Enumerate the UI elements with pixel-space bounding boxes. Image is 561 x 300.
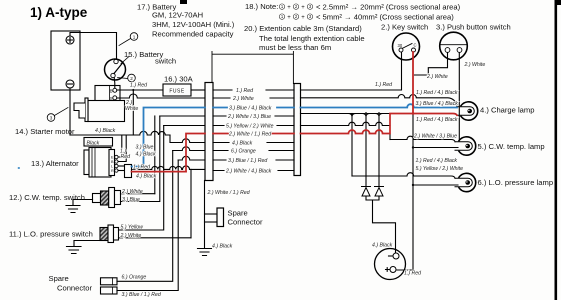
- node 1 leader: [119, 39, 131, 46]
- alternator terminal letters: [111, 156, 114, 174]
- svg-text:S: S: [110, 96, 113, 101]
- wire bus1 right to key switch: [301, 52, 402, 90]
- starter motor 14 body: [88, 101, 125, 122]
- node 3 circle: [47, 114, 55, 122]
- extension cable dimension line: [212, 52, 293, 84]
- alternator connector: [125, 165, 132, 178]
- push button terminal right: [457, 48, 462, 53]
- wire V4 black drop to CW lamp upper: [389, 134, 391, 140]
- ground CW temp switch: [66, 206, 80, 213]
- wire LO bottom 2.White: [119, 237, 192, 239]
- svg-text:C: C: [414, 43, 417, 48]
- key switch terminal AC: [412, 48, 416, 52]
- L.O. pressure switch ring: [108, 225, 114, 243]
- C.W. temp switch ring: [109, 188, 115, 208]
- svg-text:4.) Black: 4.) Black: [232, 140, 253, 146]
- svg-text:2.) White / 4.) Black: 2.) White / 4.) Black: [225, 168, 272, 174]
- plug minus pin: [393, 253, 399, 259]
- wire LO lamp lower from black vertical: [413, 184, 458, 186]
- wire bus w9 left stub bump over red: [178, 156, 205, 160]
- wire bus1 1.Red: [213, 89, 294, 91]
- cw temp lamp 5: [459, 137, 476, 155]
- plug minus sign: [389, 255, 393, 257]
- wire red bus6 right run with bumps and rise to lamp level: [301, 114, 458, 134]
- svg-text:1.) Red: 1.) Red: [133, 165, 151, 171]
- leader 15 battery switch: [121, 57, 129, 64]
- node 1 circle: [130, 33, 138, 41]
- svg-text:4.) Black: 4.) Black: [95, 128, 116, 134]
- ground middle 4.Black: [198, 249, 212, 256]
- svg-text:12.) C.W. temp. switch: 12.) C.W. temp. switch: [9, 193, 85, 202]
- diode D1: [362, 187, 371, 197]
- wire 1.Red starter B to fuse: [117, 89, 163, 91]
- wire battery+ to battery switch: [70, 33, 117, 60]
- scan speck: [18, 167, 20, 169]
- svg-text:GM, 12V-70AH: GM, 12V-70AH: [152, 11, 203, 20]
- svg-text:1.) Red / 4.) Black: 1.) Red / 4.) Black: [416, 90, 458, 96]
- wire alternator E up to ground run: [118, 135, 122, 157]
- charge lamp bulb: [457, 107, 474, 116]
- node 2 leader: [118, 78, 128, 79]
- wire diode common to plug: [373, 200, 396, 253]
- wire stub to mid spare connector pin1: [205, 213, 218, 215]
- svg-text:B: B: [110, 89, 113, 94]
- charge lamp 4: [461, 102, 478, 120]
- wire labels: [87, 62, 486, 298]
- starter motor solenoid divider: [109, 86, 111, 102]
- wire diodes join: [366, 196, 379, 200]
- svg-text:must be less than 6m: must be less than 6m: [259, 43, 331, 52]
- plug plus sign: [386, 268, 390, 272]
- svg-text:+: +: [287, 5, 291, 11]
- svg-text:Connector: Connector: [228, 218, 264, 227]
- wire CW lamp lower from black vertical: [413, 147, 458, 149]
- alternator terminal E: [115, 155, 118, 158]
- svg-text:1.) Red / 4.) Black: 1.) Red / 4.) Black: [416, 158, 458, 164]
- battery switch top terminal: [114, 59, 118, 63]
- wire diode feed V2: [365, 117, 367, 186]
- svg-text:3.) Blue / 4.) Black: 3.) Blue / 4.) Black: [416, 101, 459, 107]
- C.W. temp switch head: [115, 191, 121, 205]
- svg-text:4.) Black: 4.) Black: [136, 152, 157, 158]
- wire bus8 6.Orange: [213, 150, 294, 152]
- svg-text:4.) Charge lamp: 4.) Charge lamp: [480, 106, 534, 115]
- label box Black: [84, 138, 113, 147]
- L.O. pressure switch head: [114, 228, 119, 241]
- wire bus4 2.White 3.Blue: [213, 115, 294, 117]
- wire alternator R to connector: [118, 170, 124, 172]
- lo pressure lamp 6: [459, 173, 476, 191]
- alternator 13 left cap: [84, 150, 89, 175]
- svg-text:30: 30: [398, 43, 403, 48]
- svg-text:Spare: Spare: [228, 209, 248, 218]
- svg-text:L: L: [111, 165, 113, 169]
- wire CW lamp upper with bump over black vertical: [390, 136, 455, 142]
- svg-text:4.) Black: 4.) Black: [136, 174, 157, 180]
- wire LO to ground: [74, 241, 100, 247]
- svg-text:2.) White: 2.) White: [120, 233, 142, 239]
- node T junction V1: [349, 114, 356, 118]
- battery switch 15: [105, 59, 126, 80]
- svg-text:5.) Yellow / 2.) White: 5.) Yellow / 2.) White: [226, 123, 274, 129]
- wire 6.Orange spare to bus w8: [117, 151, 173, 282]
- svg-text:Recommended capacity: Recommended capacity: [152, 30, 234, 39]
- wire 3.Blue bus3 between bars: [213, 107, 294, 109]
- node 3 leader: [55, 108, 69, 116]
- svg-text:3HM, 12V-100AH (Mini.): 3HM, 12V-100AH (Mini.): [152, 20, 235, 29]
- wire black vertical key red continuation to plug: [397, 114, 413, 271]
- svg-text:1.) Red: 1.) Red: [236, 88, 254, 94]
- battery switch bottom terminal: [111, 73, 115, 77]
- node T junction V3: [376, 114, 383, 118]
- lo pressure lamp bulb: [455, 178, 472, 187]
- svg-text:16.) 30A: 16.) 30A: [164, 75, 194, 84]
- svg-text:14.) Starter motor: 14.) Starter motor: [15, 127, 75, 136]
- svg-text:2: 2: [130, 76, 133, 81]
- wire left bus bottom drop: [204, 181, 206, 249]
- wire 1.Red pair from alternator connector: [132, 171, 187, 173]
- svg-text:5.) Yellow / 2.) White: 5.) Yellow / 2.) White: [416, 166, 464, 172]
- wire push button right 2.White down to CW lamp: [458, 53, 460, 140]
- wire bus2 2.White: [213, 97, 294, 99]
- wire 3.Blue bus3 right run to charge lamp with bump over red: [301, 104, 458, 107]
- svg-text:3.) Blue: 3.) Blue: [122, 197, 140, 203]
- wire red key switch AC drop: [412, 52, 414, 114]
- svg-text:1.) Red: 1.) Red: [404, 270, 422, 276]
- alternator terminal B: [115, 160, 118, 163]
- svg-text:1.) Red: 1.) Red: [130, 82, 148, 88]
- svg-text:13.) Alternator: 13.) Alternator: [31, 159, 79, 168]
- svg-text:18.) Note:: 18.) Note:: [245, 2, 278, 11]
- L.O. pressure switch 11 body hatched: [100, 228, 108, 241]
- node 2 circle: [128, 74, 136, 82]
- wire bus5 5.Yellow 2.White: [213, 125, 294, 127]
- page mark top dash: [180, 0, 187, 4]
- battery 17: [51, 31, 80, 90]
- svg-text:3: 3: [50, 115, 53, 120]
- battery + terminal: [66, 36, 74, 44]
- alternator body ribs: [92, 148, 95, 178]
- plug battery connector: [375, 249, 406, 280]
- key switch 2: [393, 33, 420, 60]
- svg-text:1) A-type: 1) A-type: [30, 5, 88, 20]
- connector bus bar left: [205, 83, 213, 181]
- wire starter S to bus w2 with bump: [117, 94, 205, 98]
- fuse 16 30A box: [163, 84, 191, 96]
- wire LO lamp upper with bump: [352, 173, 455, 179]
- C.W. temp switch 12 stub: [93, 194, 101, 203]
- svg-text:2.) White: 2.) White: [232, 96, 254, 102]
- note formula line 1: [279, 4, 312, 19]
- svg-text:6.) Orange: 6.) Orange: [122, 275, 147, 281]
- svg-text:2.) White: 2.) White: [121, 189, 143, 195]
- starter motor S terminal: [113, 96, 117, 100]
- svg-text:Connector: Connector: [57, 284, 93, 293]
- wire battery- cable down: [69, 88, 71, 135]
- node junction CW lower: [412, 146, 414, 148]
- wire 3.Blue bus3 left stub and drop to alternator connector: [132, 108, 206, 167]
- cw temp lamp bulb: [455, 142, 472, 151]
- wire push button left 2.White to key AC: [415, 53, 448, 75]
- svg-text:5.) Yellow: 5.) Yellow: [121, 225, 145, 231]
- alternator right plate: [109, 150, 115, 176]
- svg-text:R: R: [111, 169, 114, 173]
- starter motor 14 solenoid: [95, 86, 120, 102]
- key switch terminal 30: [399, 48, 403, 52]
- starter motor flange: [85, 98, 88, 122]
- wire red bus6 between bars: [213, 133, 294, 135]
- page corner mark top right: [555, 0, 561, 5]
- push button terminal left: [445, 48, 450, 53]
- svg-text:2.) White / 3.) Blue: 2.) White / 3.) Blue: [413, 134, 457, 140]
- push button plate: [440, 44, 467, 46]
- wire 4.Black jog to bus w7: [170, 135, 205, 143]
- node junction LO lower: [412, 184, 414, 186]
- wire LO top 5.Yellow: [119, 126, 164, 231]
- svg-text:switch: switch: [155, 57, 176, 66]
- svg-text:3.) Blue / 1.) Red: 3.) Blue / 1.) Red: [122, 292, 162, 298]
- wire 2.White vertical from B junction: [132, 90, 134, 135]
- wire stub to mid spare connector pin2: [205, 221, 218, 223]
- starter motor B terminal: [113, 88, 117, 92]
- wire 3.Blue1.Red spare to bus w9: [117, 160, 178, 291]
- ground LO pressure switch: [67, 247, 82, 254]
- svg-text:11.) L.O. pressure switch: 11.) L.O. pressure switch: [9, 230, 93, 239]
- svg-text:2.) White / 1.) Red: 2.) White / 1.) Red: [228, 131, 272, 137]
- push button switch 3: [440, 32, 468, 60]
- svg-text:6.) L.O. pressure lamp: 6.) L.O. pressure lamp: [478, 178, 554, 187]
- wire alternator B 1.Red up: [118, 135, 126, 162]
- key switch lever: [403, 44, 412, 49]
- svg-text:2.) White: 2.) White: [426, 74, 448, 80]
- battery - terminal: [66, 80, 74, 88]
- svg-text:White: White: [125, 106, 138, 112]
- svg-text:+: +: [301, 15, 305, 21]
- svg-text:5.) C.W. temp. lamp: 5.) C.W. temp. lamp: [478, 142, 545, 151]
- svg-text:+: +: [287, 15, 291, 21]
- svg-text:Red: Red: [121, 154, 132, 160]
- wire bus w5 left stub: [164, 125, 205, 127]
- node red junction: [412, 112, 415, 115]
- connector bus bar right: [294, 84, 301, 176]
- node digits 1 2 3: [50, 34, 136, 120]
- battery switch lever: [114, 63, 123, 74]
- C.W. temp switch body hatched: [101, 191, 109, 205]
- spare connector middle: [217, 208, 224, 227]
- plug plus pin: [390, 267, 396, 273]
- wire alternator L to connector: [118, 165, 124, 167]
- svg-text:2.) White / 3.) Blue: 2.) White / 3.) Blue: [227, 114, 271, 120]
- wire diode feed V3: [378, 117, 380, 186]
- svg-text:1.) Red / 4.) Black: 1.) Red / 4.) Black: [416, 117, 458, 123]
- node junction B wire: [132, 89, 134, 91]
- svg-text:Black: Black: [87, 140, 100, 146]
- spare connector bottom-left pin1: [101, 278, 118, 285]
- svg-text:20.) Extention cable 3m (Stand: 20.) Extention cable 3m (Standard): [244, 24, 362, 33]
- svg-text:4.) Black: 4.) Black: [372, 243, 393, 249]
- wire CW top 2.White: [121, 193, 155, 195]
- svg-text:Spare: Spare: [49, 274, 69, 283]
- svg-text:4.) Black: 4.) Black: [212, 244, 233, 250]
- svg-text:1: 1: [133, 34, 136, 39]
- wire CW vertical x154.8 to bus w4: [154, 116, 156, 194]
- wire LO white vertical to w10: [190, 169, 192, 237]
- wire bus10 2.White 4.Black: [213, 170, 294, 172]
- wire V1 down to LO lamp: [351, 114, 353, 177]
- svg-text:6.) Orange: 6.) Orange: [231, 148, 256, 154]
- svg-text:< 5mm² → 40mm² (Cross sectiona: < 5mm² → 40mm² (Cross sectional area): [316, 13, 454, 22]
- alternator terminal L: [115, 164, 118, 167]
- wire battery switch to starter B: [113, 78, 116, 89]
- alternator terminal R: [115, 169, 118, 172]
- svg-text:3.) Blue / 1.) Red: 3.) Blue / 1.) Red: [228, 158, 268, 164]
- starter motor nose: [74, 103, 85, 118]
- svg-text:1.) Red: 1.) Red: [375, 82, 393, 88]
- wire bus9 3.Blue 1.Red: [213, 159, 294, 161]
- svg-text:2.) White / 1.) Red: 2.) White / 1.) Red: [207, 190, 251, 196]
- wire fuse to left bus: [191, 89, 205, 91]
- wire CW switch to ground: [73, 200, 93, 206]
- svg-text:< 2.5mm² → 20mm² (Cross sectio: < 2.5mm² → 20mm² (Cross sectional area): [316, 3, 461, 12]
- svg-text:3.) Blue: 3.) Blue: [136, 145, 154, 151]
- spare connector bottom-left pin2: [101, 287, 118, 294]
- wire CW bottom 3.Blue: [121, 116, 160, 202]
- svg-text:3.) Push button switch: 3.) Push button switch: [436, 22, 511, 31]
- node T junction V2: [363, 114, 370, 118]
- wire bus w4 left stub: [160, 115, 205, 117]
- wire bus5 right run with bumps to V4: [301, 122, 391, 125]
- svg-text:2.) Key switch: 2.) Key switch: [381, 22, 428, 31]
- diode D2: [375, 187, 384, 197]
- svg-text:2.) White: 2.) White: [464, 62, 486, 68]
- wire pair black from connector with bumps: [132, 166, 206, 169]
- wire 4.Black run y135 with bumps: [70, 131, 170, 135]
- wire bus4 right y113.5: [301, 113, 391, 115]
- svg-text:+: +: [301, 5, 305, 11]
- page border right: [555, 0, 558, 300]
- svg-text:The total length extention cab: The total length extention cable: [259, 34, 365, 43]
- svg-text:FUSE: FUSE: [169, 88, 185, 94]
- wire bus w8 left stub bump over red: [173, 147, 205, 151]
- wire 1.Red riser to bus w6: [186, 134, 205, 172]
- wire bus2 right to charge lamp with bumps over key wires: [301, 94, 458, 106]
- wire bus7 4.Black: [213, 142, 294, 144]
- svg-text:3.) Blue / 4.) Black: 3.) Blue / 4.) Black: [229, 105, 272, 111]
- alternator body: [89, 148, 111, 178]
